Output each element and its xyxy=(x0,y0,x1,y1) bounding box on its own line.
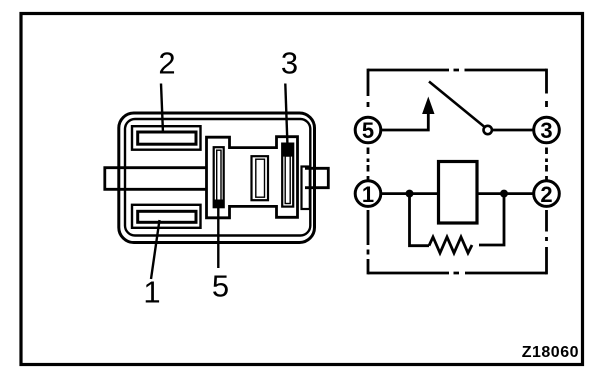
terminal slot 3 outer xyxy=(282,144,293,207)
terminal circle 1 xyxy=(355,181,381,207)
wire from terminal 5 to switch xyxy=(381,112,428,130)
svg-text:1: 1 xyxy=(143,275,160,310)
right mounting tab xyxy=(305,168,328,187)
switch blade xyxy=(429,82,484,127)
terminal 3 contact mark xyxy=(282,144,293,157)
center slot inner xyxy=(256,159,265,197)
resistor branch right wire xyxy=(479,194,504,245)
center slot outer xyxy=(252,156,269,200)
junction dot right xyxy=(500,190,508,198)
terminal slot 5 inner xyxy=(217,150,221,204)
leader line 1 xyxy=(151,220,160,279)
svg-text:3: 3 xyxy=(540,118,552,143)
terminal circle 5 xyxy=(355,117,381,143)
switch contact circle xyxy=(484,126,492,134)
svg-text:1: 1 xyxy=(362,182,374,207)
svg-text:Z18060: Z18060 xyxy=(522,344,579,361)
leader line 2 xyxy=(161,84,163,134)
relay coil xyxy=(439,162,478,224)
svg-text:2: 2 xyxy=(158,46,175,81)
right channel notch xyxy=(302,167,310,210)
resistor branch left wire xyxy=(410,194,430,246)
terminal slot 1 outer xyxy=(132,205,201,228)
terminal slot 5 outer xyxy=(214,147,224,207)
terminal 5 contact mark xyxy=(214,200,224,208)
svg-text:5: 5 xyxy=(212,269,229,304)
svg-text:2: 2 xyxy=(540,182,552,207)
relay housing inner outline xyxy=(125,119,310,236)
terminal slot 1 blade xyxy=(138,211,196,222)
wire from contact to terminal 3 xyxy=(493,129,535,132)
terminal slot 3 inner xyxy=(285,156,290,204)
left mounting tab xyxy=(105,168,206,190)
leader line 3 xyxy=(285,84,287,150)
schematic boundary top edge xyxy=(368,69,547,72)
resistor R zigzag xyxy=(429,237,472,253)
terminal circle 3 xyxy=(534,117,560,143)
svg-text:5: 5 xyxy=(362,118,374,143)
switch actuation arrow xyxy=(423,98,434,114)
schematic boundary right edge xyxy=(545,69,548,275)
terminal slot 2 outer xyxy=(132,126,201,150)
schematic boundary bottom edge xyxy=(368,272,547,275)
terminal slot 2 blade xyxy=(138,132,196,144)
center bracket outline xyxy=(207,137,298,218)
svg-text:3: 3 xyxy=(281,46,298,81)
relay housing outer outline xyxy=(119,113,315,243)
wire from terminal 1 to terminal 2 xyxy=(381,192,534,195)
schematic boundary left edge xyxy=(367,69,370,275)
terminal circle 2 xyxy=(534,181,560,207)
junction dot left xyxy=(406,190,414,198)
leader line 5 xyxy=(217,205,219,268)
